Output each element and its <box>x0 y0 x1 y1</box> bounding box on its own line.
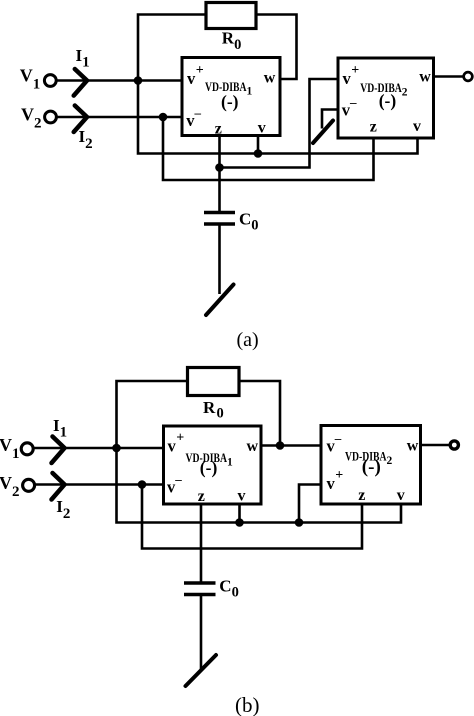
wire R0 right lead down to w1 net (b) <box>239 381 280 446</box>
wire z pin of U1b down to capacitor C0b <box>200 503 203 583</box>
svg-text:z: z <box>358 487 365 504</box>
wire V1 input to v+ of U1a <box>56 79 183 82</box>
wire V1 input to v+ of U1b <box>35 447 165 450</box>
svg-text:w: w <box>247 438 259 455</box>
ground slash below C0 (b) <box>186 655 217 686</box>
wire below capacitor C0b <box>200 595 203 671</box>
output terminal (b) <box>450 441 458 449</box>
svg-text:(-): (-) <box>362 457 381 478</box>
input terminal V1 (b) <box>21 443 33 455</box>
wire below capacitor C0a <box>218 224 221 294</box>
wire net V1a: R0 left lead, down left side, bus1, up to v pin of U2a <box>138 15 418 154</box>
ground slash below C0 (a) <box>206 285 234 316</box>
op-block U2a VD-DIBA2 <box>338 58 434 138</box>
junction dot v pin U1a on bus1 <box>254 149 263 158</box>
svg-text:v: v <box>413 118 421 135</box>
wire bus2: z1 junction to v+ of U2a <box>220 79 338 168</box>
capacitor C0 (b) bottom plate <box>184 593 216 596</box>
capacitor C0 (a) top plate <box>204 211 235 214</box>
svg-text:V1: V1 <box>0 435 20 462</box>
svg-text:V1: V1 <box>20 66 41 93</box>
svg-text:z: z <box>215 120 222 137</box>
capacitor C0 (b) top plate <box>184 581 216 584</box>
svg-text:w: w <box>419 69 431 86</box>
input terminal V2 (b) <box>23 479 35 491</box>
wire v-1b junction down, busB, up to z pin of U2b <box>142 485 362 549</box>
resistor R0 (b) <box>188 368 240 396</box>
wire V2 input to v- of U1b <box>35 483 165 486</box>
svg-text:V2: V2 <box>21 105 42 132</box>
wire v pin of U1a down to bus1 <box>257 137 260 154</box>
junction dot R0 right on w1 net (b) <box>276 441 285 450</box>
wire w of U2a to output terminal <box>433 75 463 78</box>
svg-text:V2: V2 <box>0 473 20 500</box>
wire v- of U2a to ground stub <box>322 110 338 129</box>
svg-text:C0: C0 <box>239 209 259 233</box>
svg-text:v: v <box>397 487 405 504</box>
wire z pin of U1a down to capacitor C0a <box>218 137 221 213</box>
resistor R0 (a) <box>206 3 256 29</box>
wire v pin of U1b down to busA <box>238 503 241 523</box>
junction dot v+2 riser on busA (b) <box>295 518 304 527</box>
current arrow I1 (b) <box>52 437 65 464</box>
junction dot v-1/V2 (a) <box>159 113 168 122</box>
wire v-1 junction down, bus3, up to z pin of U2a <box>163 117 374 180</box>
input terminal V1 (a) <box>44 75 56 87</box>
junction dot V2/v-1 (b) <box>138 480 147 489</box>
svg-text:w: w <box>407 437 419 454</box>
op-block U2b VD-DIBA2 <box>321 426 421 505</box>
current arrow I1 (a) <box>74 69 87 96</box>
junction dot z1 on bus2 (a) <box>215 163 224 172</box>
wire net V1b: R0 left lead, down left side, busA, up to v pin of U2b <box>117 381 402 523</box>
svg-text:R0: R0 <box>203 398 224 422</box>
op-block U1b VD-DIBA1 <box>164 426 262 504</box>
svg-text:(b): (b) <box>235 693 260 716</box>
junction dot v+1/V1 (a) <box>134 76 143 85</box>
junction dot v pin U1b on busA <box>235 518 244 527</box>
svg-text:w: w <box>264 70 276 87</box>
wire v+ of U2b to busA <box>299 485 322 523</box>
ground slash at v- of U2a <box>313 121 333 144</box>
op-block U1a VD-DIBA1 <box>182 58 280 136</box>
current arrow I2 (a) <box>74 106 87 133</box>
input terminal V2 (a) <box>45 111 57 123</box>
svg-text:C0: C0 <box>219 576 239 600</box>
svg-text:(-): (-) <box>379 91 397 111</box>
capacitor C0 (a) bottom plate <box>204 222 235 225</box>
wire R0 right lead down to w of U1a <box>256 15 297 80</box>
svg-text:(a): (a) <box>237 329 259 351</box>
svg-text:(-): (-) <box>221 92 239 112</box>
wire w of U1b to v- of U2b <box>260 444 322 447</box>
svg-text:v: v <box>238 488 246 505</box>
current arrow I2 (b) <box>52 473 65 500</box>
svg-text:I2: I2 <box>56 497 70 522</box>
svg-text:(-): (-) <box>200 458 218 478</box>
output terminal (a) <box>464 72 473 81</box>
svg-text:v: v <box>258 120 266 137</box>
wire V2 input to v- of U1a <box>57 116 184 119</box>
svg-text:I2: I2 <box>79 127 93 152</box>
svg-text:R0: R0 <box>222 29 242 54</box>
svg-text:z: z <box>198 488 205 505</box>
junction dot V1/busA riser (b) <box>112 444 121 453</box>
svg-text:I1: I1 <box>76 46 90 71</box>
wire w of U2b to output terminal <box>421 444 449 447</box>
svg-text:z: z <box>370 119 377 136</box>
